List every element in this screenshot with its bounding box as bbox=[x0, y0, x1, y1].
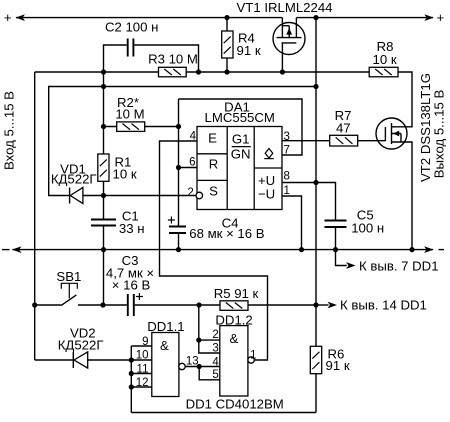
svg-text:DD1.2: DD1.2 bbox=[215, 313, 252, 328]
svg-text:1: 1 bbox=[250, 350, 256, 362]
svg-text:2: 2 bbox=[187, 187, 193, 199]
wire C5 bottom to rail bbox=[335, 227, 337, 250]
svg-text:11: 11 bbox=[137, 363, 149, 375]
wire C1 bottom to SB1 line bbox=[103, 226, 105, 306]
wire pin7 loop over DA1 bbox=[179, 99, 303, 155]
arrow to pin14 DD1 bbox=[328, 302, 338, 309]
wire branch to pin7 DD1 bbox=[336, 250, 347, 266]
resistor R4 bbox=[222, 31, 233, 58]
resistor R2 bbox=[117, 122, 145, 131]
resistor R6 bbox=[310, 346, 321, 373]
diode VD2 bbox=[73, 352, 87, 368]
svg-text:К выв. 7 DD1: К выв. 7 DD1 bbox=[359, 258, 439, 273]
wire R8 right to VT2 drain bbox=[392, 72, 413, 127]
diode VD1 bbox=[70, 187, 83, 203]
svg-text:33 н: 33 н bbox=[119, 221, 145, 236]
svg-text:6: 6 bbox=[189, 156, 195, 168]
wire VD2 line left bbox=[35, 359, 74, 361]
wire DD1.2 pins 2-3 riser bbox=[199, 305, 220, 353]
svg-text:4: 4 bbox=[212, 357, 219, 369]
wire VD1 anode to DA1 pin2 bbox=[83, 195, 196, 197]
DA1 pin2 inversion bubble bbox=[196, 192, 203, 199]
svg-text:10 к: 10 к bbox=[113, 167, 137, 182]
wire R1 bottom to C1 top bbox=[103, 181, 105, 219]
wire bottom return line bbox=[131, 412, 316, 414]
wire R6 bottom lead bbox=[315, 374, 317, 413]
capacitor C5 bbox=[325, 221, 347, 228]
svg-text:47: 47 bbox=[336, 121, 351, 136]
wire DD1.1 pin9 bbox=[131, 345, 152, 347]
wire DA1 pin6 bbox=[179, 167, 198, 169]
svg-text:2: 2 bbox=[212, 329, 218, 341]
arrow top-right bbox=[424, 14, 434, 21]
wire DD1.2 pin2 bbox=[199, 339, 220, 341]
svg-text:DD1 CD4012ВМ: DD1 CD4012ВМ bbox=[186, 397, 284, 412]
capacitor C2 bbox=[128, 39, 134, 57]
svg-text:7: 7 bbox=[284, 145, 290, 157]
wire C3 to R5 bbox=[135, 304, 220, 306]
svg-text:&: & bbox=[230, 331, 239, 346]
wire DD1.1 pin13 to DD1.2 pin4 bbox=[185, 366, 220, 368]
wire middle minus rail bbox=[13, 249, 434, 251]
wire C4 bottom to rail bbox=[178, 233, 180, 250]
svg-text:LMC555CM: LMC555CM bbox=[205, 110, 275, 125]
wire pin14 arrow shaft bbox=[316, 304, 329, 306]
wire SB1 line left bbox=[35, 304, 61, 306]
svg-text:Вход 5...15 В: Вход 5...15 В bbox=[2, 91, 17, 170]
wire DA1 pin1 to rail bbox=[282, 196, 302, 250]
wire DA1 pin3 to R7 bbox=[282, 140, 330, 142]
wire R4 top lead bbox=[226, 18, 228, 31]
svg-text:E: E bbox=[208, 130, 217, 145]
resistor R8 bbox=[369, 67, 398, 77]
op-amp U1 timer DA1 bbox=[197, 127, 282, 210]
svg-text:S: S bbox=[209, 183, 218, 198]
resistor R1 bbox=[98, 154, 109, 181]
capacitor C3 bbox=[128, 293, 143, 316]
svg-text:GN: GN bbox=[231, 146, 251, 161]
wire R5 to pin14 junction bbox=[248, 304, 316, 306]
wire gate line y=72 middle part (R3 to R8) bbox=[186, 71, 369, 73]
wire VT2 source to rail bbox=[392, 142, 413, 250]
minus dash mid-left bbox=[2, 249, 10, 251]
wire DD1.2 pin5 riser bbox=[199, 367, 220, 380]
svg-text:10 М: 10 М bbox=[115, 107, 144, 122]
svg-text:−U: −U bbox=[258, 187, 275, 202]
resistor R5 bbox=[220, 301, 248, 311]
svg-text:C2 100 н: C2 100 н bbox=[105, 19, 158, 34]
svg-text:&: & bbox=[160, 338, 169, 353]
capacitor C4 bbox=[168, 217, 186, 234]
wire SB1 to C3 bbox=[78, 304, 127, 306]
arrow top-left bbox=[16, 14, 26, 21]
wire DD1.1 inputs riser bbox=[130, 346, 132, 413]
wire DA1 pin8 to C5 bbox=[282, 183, 336, 221]
svg-text:3: 3 bbox=[212, 342, 218, 354]
arrow mid-right bbox=[424, 246, 434, 253]
svg-text:9: 9 bbox=[142, 336, 148, 348]
wire DD1.1 pin11 bbox=[131, 373, 152, 375]
svg-text:100 н: 100 н bbox=[351, 220, 384, 235]
minus dash mid-right bbox=[439, 249, 445, 251]
svg-text:SB1: SB1 bbox=[56, 269, 81, 284]
svg-text:+: + bbox=[4, 10, 12, 25]
svg-text:G1: G1 bbox=[232, 132, 250, 147]
svg-text:4: 4 bbox=[190, 130, 197, 142]
arrow mid-left bbox=[12, 246, 22, 253]
wire top plus rail right segment bbox=[296, 17, 433, 19]
svg-text:R3 10 М: R3 10 М bbox=[148, 51, 198, 66]
logic gate DD1.1 bbox=[152, 333, 179, 397]
transistor VT1 bbox=[273, 18, 305, 72]
wire plus distribution vertical x=316 bbox=[315, 18, 317, 347]
svg-text:3: 3 bbox=[284, 131, 290, 143]
svg-text:VT1 IRLML2244: VT1 IRLML2244 bbox=[236, 0, 332, 15]
svg-text:13: 13 bbox=[186, 356, 199, 368]
wire DA1 pin4 to DD1.2 output bbox=[160, 141, 268, 360]
svg-text:R: R bbox=[209, 156, 219, 171]
wire R4 bottom lead bbox=[226, 58, 228, 72]
wire VD1 cathode riser and y=86.5 line bbox=[49, 87, 316, 196]
svg-text:10: 10 bbox=[136, 349, 149, 361]
svg-text:91 к: 91 к bbox=[326, 358, 350, 373]
wire VD2 anode to DD1.1 pin10 bbox=[88, 359, 152, 361]
wire top plus rail left segment bbox=[16, 17, 282, 19]
logic gate DD1.2 bbox=[220, 326, 248, 396]
svg-text:Выход 5...15 В: Выход 5...15 В bbox=[432, 90, 447, 179]
node junction dots bbox=[32, 15, 415, 390]
svg-text:R5 91 к: R5 91 к bbox=[214, 286, 259, 301]
svg-text:68 мк × 16 В: 68 мк × 16 В bbox=[189, 226, 265, 241]
wire DD1.1 pin12 bbox=[131, 386, 152, 388]
DD1.2 output bubble pin1 bbox=[248, 357, 254, 363]
resistor R7 bbox=[330, 135, 358, 146]
wire C2 branch bbox=[104, 45, 199, 72]
svg-text:10 к: 10 к bbox=[373, 52, 397, 67]
svg-text:8: 8 bbox=[284, 171, 290, 183]
svg-text:КД522Г: КД522Г bbox=[58, 338, 104, 353]
wire R2 line bbox=[104, 126, 179, 128]
svg-text:КД522Г: КД522Г bbox=[51, 172, 97, 187]
transistor VT2 bbox=[376, 118, 407, 149]
wire outer left vertical (SB1/VD2 to gate line) bbox=[34, 72, 36, 360]
capacitor C1 bbox=[91, 220, 116, 226]
wire main left vertical upper (to R1) bbox=[103, 72, 105, 154]
wire gate line y=72 left part bbox=[35, 71, 159, 73]
wire R7 to VT2 gate bbox=[358, 140, 386, 142]
switch SB1 bbox=[61, 283, 77, 305]
svg-text:DD1.1: DD1.1 bbox=[147, 319, 184, 334]
svg-text:К выв. 14 DD1: К выв. 14 DD1 bbox=[340, 297, 427, 312]
arrow to pin7 DD1 bbox=[346, 262, 356, 269]
svg-text:12: 12 bbox=[136, 377, 149, 389]
svg-text:1: 1 bbox=[284, 185, 290, 197]
resistor R3 bbox=[159, 67, 187, 77]
wire R2 right vertical to C4 bbox=[178, 99, 180, 227]
svg-text:5: 5 bbox=[212, 369, 218, 381]
DD1.1 output bubble pin13 bbox=[179, 363, 185, 369]
svg-text:91 к: 91 к bbox=[237, 43, 261, 58]
svg-text:× 16 В: × 16 В bbox=[112, 277, 151, 292]
svg-text:+: + bbox=[436, 10, 444, 25]
